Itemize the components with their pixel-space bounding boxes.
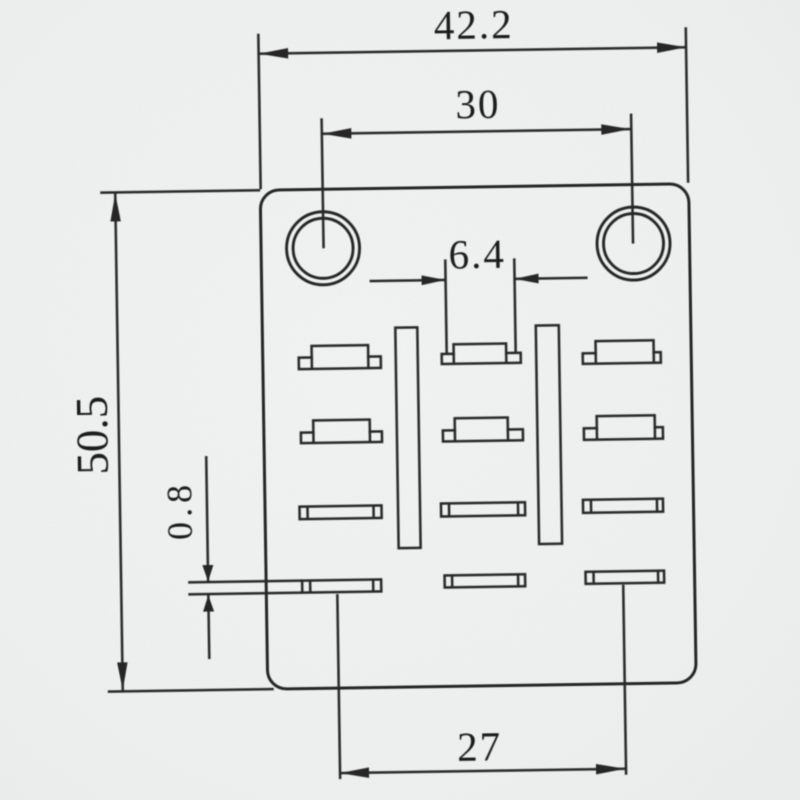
slot row1 left (hat shape): [299, 345, 381, 369]
svg-text:27: 27: [457, 723, 503, 770]
svg-text:50.5: 50.5: [67, 396, 118, 476]
dim 0.8 arrow upper: [202, 565, 213, 582]
slot row4 left (plain): [302, 579, 381, 592]
mounting hole left (inner): [293, 218, 354, 279]
svg-text:6.4: 6.4: [448, 231, 506, 278]
dim 30 extension line right: [631, 114, 633, 244]
dim 6.4 arrow right: [514, 274, 538, 284]
dim 27 line: [340, 769, 625, 773]
svg-text:42.2: 42.2: [433, 1, 513, 48]
dim 42.2 arrow left: [259, 48, 288, 59]
dim 27 arrow left: [340, 767, 369, 778]
slot row4 center (plain): [445, 574, 526, 587]
dim 0.8 extension line bottom: [188, 593, 302, 595]
dim 42.2 extension line right: [686, 27, 688, 182]
dim 50.5 line: [115, 193, 123, 690]
socket body outline: [260, 184, 696, 689]
dim 30 arrow left: [322, 128, 351, 139]
slot row2 left (hat shape): [301, 419, 382, 443]
slot row3 left (plain): [299, 505, 381, 519]
slot row2 center (hat shape): [443, 417, 523, 441]
dim 30 extension line left: [322, 118, 324, 248]
dim 42.2 extension line left: [258, 34, 260, 189]
vertical bar slot right: [536, 325, 562, 544]
dim 50.5 extension line top: [100, 190, 260, 192]
dim 50.5 arrow bottom: [117, 662, 128, 690]
dim 0.8 line lower: [207, 595, 210, 659]
dim 30 arrow right: [601, 124, 630, 135]
dim 6.4 arrow left: [421, 275, 445, 285]
slot row3 right (plain): [583, 499, 663, 513]
slot row1 right (hat shape): [583, 340, 661, 364]
dim 50.5 arrow top: [110, 193, 121, 221]
dim 27 arrow right: [596, 764, 625, 775]
mounting hole left (outer): [286, 211, 360, 285]
dim 42.2 line: [259, 47, 686, 53]
dim 30 line: [322, 129, 630, 134]
dim 0.8 extension line top: [188, 581, 302, 583]
dim 27 extension line left: [337, 594, 340, 779]
dim 27 extension line right: [623, 585, 626, 775]
dim 6.4 tail left: [370, 280, 446, 281]
dim 6.4 extension line left: [445, 259, 446, 353]
svg-text:30: 30: [455, 81, 501, 128]
dim 6.4 tail right: [515, 278, 588, 279]
vertical bar slot left: [395, 327, 420, 548]
mounting hole right (outer): [596, 207, 670, 281]
mounting hole right (inner): [603, 213, 664, 274]
dim 42.2 arrow right: [657, 42, 686, 53]
slot row4 right (plain): [586, 571, 665, 584]
slot row1 center (hat shape): [442, 343, 521, 364]
dim 0.8 line upper: [206, 456, 208, 582]
dim 0.8 arrow lower: [203, 595, 214, 612]
dim 50.5 extension line bottom: [108, 689, 274, 692]
slot row2 right (hat shape): [584, 415, 663, 440]
svg-text:0.8: 0.8: [159, 480, 200, 541]
dim 6.4 extension line right: [514, 258, 515, 352]
slot row3 center (plain): [441, 502, 525, 516]
